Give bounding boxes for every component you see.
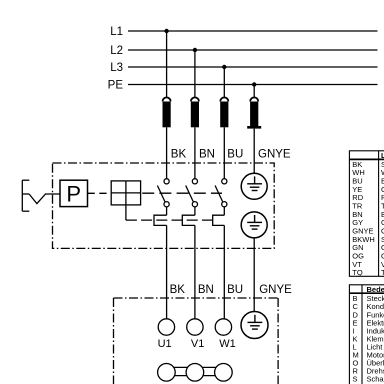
overload element pole 1 [154, 215, 167, 225]
svg-text:TQ: TQ [352, 268, 363, 277]
wire L2 drop [194, 50, 196, 98]
node L2 tap [193, 48, 197, 52]
winding terminal 3 [215, 364, 233, 382]
svg-text:L3: L3 [110, 62, 123, 74]
winding terminal 1 [158, 364, 176, 382]
bus line L1 [128, 30, 378, 32]
svg-text:PE: PE [108, 80, 124, 92]
earth terminal 2 [241, 212, 267, 238]
svg-text:GNYE: GNYE [259, 284, 292, 296]
svg-text:BU: BU [227, 284, 243, 296]
wire BK to motor [166, 225, 168, 319]
svg-text:W1: W1 [219, 338, 236, 350]
bus line L3 [128, 66, 378, 68]
motor terminal V1 [187, 319, 203, 335]
wire BU to motor [223, 225, 225, 319]
cable core BU [220, 97, 228, 127]
svg-text:BN: BN [199, 149, 215, 161]
svg-text:Bedeutung: Bedeutung [367, 285, 384, 294]
earth terminal motor [241, 312, 268, 339]
svg-text:L2: L2 [110, 45, 123, 57]
winding terminal 2 [186, 364, 204, 382]
switch pole 3 [215, 179, 227, 216]
svg-text:U1: U1 [158, 338, 172, 350]
actuator link down [125, 205, 127, 220]
svg-text:Schalter: Schalter [367, 375, 384, 384]
enclosure box motor [114, 298, 279, 384]
wire L1 drop [166, 31, 168, 98]
switch pole 2 [186, 179, 198, 216]
wire GNYE to earth point [253, 129, 255, 174]
wire BU to switch [223, 127, 225, 178]
svg-text:BN: BN [198, 284, 214, 296]
wire BN to switch [194, 127, 196, 178]
bus line L2 [128, 49, 378, 51]
node PE tap [252, 82, 256, 86]
earth terminal 1 [241, 173, 267, 199]
node L3 tap [222, 65, 226, 69]
switch pole 1 [157, 179, 169, 216]
wire GNYE to motor earth [253, 238, 255, 312]
svg-text:BU: BU [227, 149, 243, 161]
svg-text:L1: L1 [110, 26, 123, 38]
cable core GNYE with shield bar [247, 97, 261, 128]
overload element pole 3 [213, 215, 225, 225]
wire BK to switch [166, 127, 168, 178]
winding bridge 1 [168, 367, 193, 375]
wire L3 drop [223, 67, 225, 98]
enclosure box switch unit [53, 163, 275, 248]
actuator crossed box [111, 181, 140, 205]
svg-text:P: P [66, 182, 81, 207]
wire PE drop [253, 85, 255, 99]
pressure switch P box [60, 180, 88, 206]
mechanical coupling to overload [126, 219, 216, 221]
svg-text:GNYE: GNYE [258, 149, 291, 161]
wire BN to motor [194, 225, 196, 319]
pressure sensor symbol [22, 180, 60, 211]
table wire colours rows [352, 160, 384, 277]
cable core BN [191, 97, 199, 127]
winding bridge 2 [197, 367, 222, 375]
svg-text:S: S [353, 375, 358, 384]
motor terminal W1 [215, 319, 231, 335]
bus line PE [128, 84, 378, 86]
svg-text:V1: V1 [191, 338, 204, 350]
overload element pole 2 [182, 215, 195, 225]
motor terminal U1 [158, 319, 174, 335]
mechanical link P to actuator [88, 192, 112, 194]
mechanical coupling to contacts [141, 192, 222, 194]
table designators rows [353, 294, 384, 383]
table wire colours frame [349, 151, 384, 276]
svg-text:BK: BK [170, 284, 186, 296]
cable core BK [163, 97, 171, 127]
svg-text:BK: BK [171, 149, 187, 161]
table designators frame [349, 285, 384, 384]
node L1 tap [164, 29, 168, 33]
